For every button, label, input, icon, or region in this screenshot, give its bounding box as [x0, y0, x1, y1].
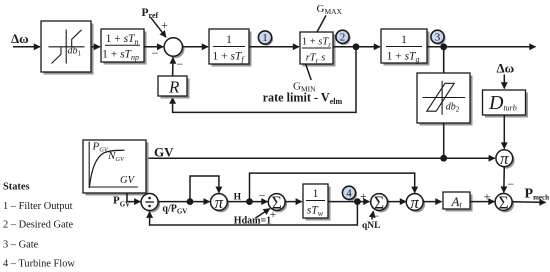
multiplier pi head — [211, 193, 230, 212]
label minus at output summer top — [507, 177, 514, 191]
svg-text:1 + sTg: 1 + sTg — [387, 51, 420, 65]
block db2 backlash — [417, 73, 473, 126]
node 2 — [336, 30, 351, 45]
block db1 deadband — [41, 21, 94, 75]
label GMIN — [293, 81, 316, 94]
svg-text:4: 4 — [346, 187, 352, 199]
block 1/(1+sTf) — [209, 29, 252, 67]
svg-text:−: − — [152, 46, 159, 60]
svg-text:GV: GV — [154, 144, 174, 159]
summing junction flow — [371, 193, 390, 213]
wire Δω to Dturb — [503, 75, 505, 89]
node 4 — [342, 186, 357, 201]
junction dot q/PGV — [187, 198, 194, 205]
wire At to output summer — [470, 201, 495, 203]
svg-text:Δω: Δω — [497, 61, 515, 76]
wire Dturb to multiplier — [503, 115, 505, 149]
wire GV line — [146, 157, 495, 159]
wire q feedback to divider — [150, 202, 358, 225]
wire pi GV down to output summer — [503, 167, 506, 193]
label minus at flow summer bottom — [372, 209, 379, 223]
svg-text:1 + sTf: 1 + sTf — [212, 51, 245, 65]
label PGV — [113, 195, 130, 209]
label GMAX — [317, 3, 343, 16]
svg-text:Δω: Δω — [11, 31, 29, 46]
svg-text:−: − — [259, 188, 266, 202]
label Pref — [142, 7, 159, 20]
summing junction output — [495, 193, 514, 213]
svg-text:1: 1 — [262, 32, 268, 44]
wire Pref to summing junction — [151, 17, 167, 37]
label Pmech — [525, 186, 550, 201]
svg-text:1 + sTr: 1 + sTr — [302, 37, 331, 50]
svg-text:1: 1 — [313, 188, 319, 200]
junction dot GV — [440, 155, 447, 162]
junction dot H — [246, 198, 253, 205]
label rate limit Velm — [263, 91, 343, 106]
wire Hdam to head summer — [256, 209, 270, 218]
label plus at output summer — [484, 190, 491, 204]
wire db1 to lead-lag — [91, 46, 100, 48]
wire Tg to gate output — [427, 46, 536, 48]
wire Tf block to Tr block — [249, 46, 299, 48]
block At — [443, 192, 473, 212]
svg-text:2: 2 — [340, 31, 346, 43]
wire H loop to pi power — [250, 173, 415, 202]
label plus at head summer — [270, 207, 277, 221]
summing junction main — [164, 38, 184, 58]
wire Tw block to flow summer — [328, 201, 370, 203]
block 1/(sTw) — [303, 184, 331, 221]
svg-text:π: π — [215, 193, 224, 212]
label GV — [154, 144, 174, 159]
svg-text:−: − — [176, 57, 183, 71]
divider circle — [141, 194, 160, 213]
wire pi power to At — [423, 201, 441, 203]
svg-text:π: π — [500, 149, 509, 168]
wire R to summer bottom — [172, 58, 174, 77]
svg-text:1: 1 — [401, 34, 407, 46]
label Hdam=1 — [234, 215, 271, 226]
label minus at summer bottom — [176, 57, 183, 71]
svg-text:2 – Desired Gate: 2 – Desired Gate — [3, 220, 73, 231]
svg-text:π: π — [411, 193, 420, 212]
wire gate down to db2 — [443, 47, 445, 73]
svg-text:+: + — [161, 18, 168, 32]
svg-text:H: H — [234, 192, 242, 202]
wire Tr block to Tg block — [333, 46, 380, 48]
wire GMAX to block — [317, 15, 326, 32]
label q/PGV — [162, 204, 187, 216]
wire lead-lag to summing junction — [144, 46, 163, 48]
wire pi head to head summer — [227, 201, 267, 203]
multiplier pi GV — [496, 149, 515, 168]
svg-text:rTr s: rTr s — [306, 53, 326, 66]
svg-text:1 – Filter Output: 1 – Filter Output — [3, 201, 73, 212]
block (1+sTr)/(rTr s) — [300, 32, 336, 67]
wire Pmech output — [512, 201, 546, 204]
svg-text:+: + — [270, 207, 277, 221]
svg-text:+: + — [360, 189, 367, 203]
junction dot gate — [440, 43, 447, 50]
multiplier pi power — [406, 193, 425, 212]
label plus at Pref input — [161, 18, 168, 32]
svg-text:4 – Turbine Flow: 4 – Turbine Flow — [3, 258, 75, 269]
wire rate feedback down from junction — [173, 47, 356, 113]
svg-text:+: + — [484, 190, 491, 204]
junction dot desired gate — [353, 43, 360, 50]
summing junction head — [268, 193, 287, 213]
node 1 — [258, 31, 273, 46]
svg-text:3: 3 — [435, 31, 441, 43]
svg-text:R: R — [168, 78, 180, 97]
wire squaring loop — [190, 176, 219, 202]
svg-text:1: 1 — [226, 34, 232, 46]
svg-text:−: − — [372, 209, 379, 223]
junction dot turbine flow — [354, 198, 361, 205]
label input Δω — [11, 31, 29, 46]
legend states — [3, 182, 75, 270]
block gate curve PGV — [83, 140, 149, 196]
wire qNL to flow summer — [372, 211, 374, 219]
svg-text:1 + sTn: 1 + sTn — [106, 33, 139, 47]
wire PGV output to divider — [127, 193, 140, 202]
label plus at flow summer — [360, 189, 367, 203]
block R — [158, 76, 190, 99]
svg-text:States: States — [3, 182, 30, 193]
block 1/(1+sTg) — [381, 29, 430, 66]
label Δω turbine — [497, 61, 515, 76]
label qNL — [362, 221, 380, 231]
block lead-lag (1+sTn)/(1+sTnp) — [101, 29, 147, 65]
label H — [234, 192, 242, 202]
wire head summer to Tw block — [285, 201, 302, 203]
svg-text:3 – Gate: 3 – Gate — [3, 240, 39, 251]
block Dturb — [483, 90, 529, 118]
svg-text:−: − — [507, 177, 514, 191]
svg-text:Σ: Σ — [499, 193, 509, 213]
label minus at head summer — [259, 188, 266, 202]
label minus at summer left — [152, 46, 159, 60]
wire db2 down to GV line — [443, 123, 445, 158]
wire input to db1 — [13, 46, 40, 48]
wire flow summer to pi power — [388, 201, 407, 203]
node 3 — [431, 30, 446, 45]
svg-text:GV: GV — [120, 175, 136, 186]
wire divider to pi head — [158, 201, 210, 203]
wire GMIN to block — [306, 64, 312, 80]
wire summer to Tf block — [183, 46, 209, 48]
